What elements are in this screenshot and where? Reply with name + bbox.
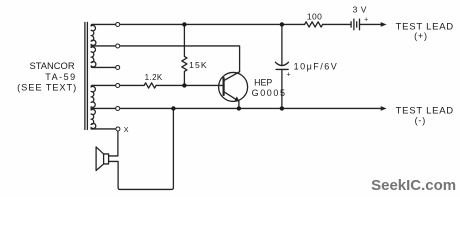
capacitor C1 curved plate xyxy=(275,62,288,65)
capacitor C1 straight plate xyxy=(276,68,288,70)
svg-text:3 V: 3 V xyxy=(353,4,367,14)
node: speaker return / lower rail xyxy=(171,106,175,110)
wire: X tap down to speaker top terminal xyxy=(109,131,118,156)
terminal tap 2 xyxy=(116,44,120,48)
wire: 1.2K to base xyxy=(156,84,223,86)
transistor Q1 collector lead xyxy=(224,72,240,81)
svg-text:(SEE TEXT): (SEE TEXT) xyxy=(17,83,77,93)
arrow to test lead (+) xyxy=(381,22,387,27)
svg-text:15K: 15K xyxy=(189,60,208,70)
svg-text:STANCOR: STANCOR xyxy=(29,60,74,71)
transistor Q1 circle xyxy=(219,72,248,101)
resistor R 15K vertical xyxy=(182,24,187,85)
svg-text:HEP: HEP xyxy=(254,78,272,88)
junction dots xyxy=(171,22,284,110)
resistor R 100 zigzag xyxy=(305,22,323,27)
transistor Q1 base bar xyxy=(223,78,225,95)
wire: base rail tap 4 to 12K xyxy=(93,84,145,86)
wire: top rail from winding to 100 resistor xyxy=(93,23,305,25)
wire: resistor to battery xyxy=(323,23,351,25)
resistor R 1.2K zigzag xyxy=(144,83,156,88)
wire: battery to test lead (+) arrow xyxy=(360,23,382,25)
wire: collector rail from winding tap 2 xyxy=(93,46,240,72)
svg-text:G0005: G0005 xyxy=(252,88,287,98)
battery B1 3V xyxy=(350,22,352,27)
node: 12K / 15K / base xyxy=(182,83,186,87)
arrow to test lead (-) xyxy=(381,106,387,111)
svg-text:TA-59: TA-59 xyxy=(45,72,76,82)
terminal tap 1 xyxy=(116,22,120,26)
svg-text:X: X xyxy=(124,125,129,134)
transformer T1 secondary winding (bottom) xyxy=(91,85,95,108)
svg-text:+: + xyxy=(364,16,368,23)
svg-text:(+): (+) xyxy=(414,31,428,41)
svg-text:+: + xyxy=(287,71,291,78)
transformer T1 primary winding (top) xyxy=(91,24,96,46)
node: capacitor / lower rail xyxy=(280,106,284,110)
wire: lower rail (test lead -) xyxy=(91,107,381,109)
capacitor C1 top lead xyxy=(281,24,283,65)
transistor Q1 emitter arrowhead xyxy=(235,96,240,101)
wire: speaker bottom terminal to bottom loop xyxy=(109,108,174,189)
svg-text:100: 100 xyxy=(307,12,322,22)
svg-text:1.2K: 1.2K xyxy=(145,73,163,82)
transistor Q1 emitter lead xyxy=(224,92,239,109)
svg-text:SeekIC.com: SeekIC.com xyxy=(371,177,456,194)
node: 15K / top rail xyxy=(182,22,186,26)
terminal tap 3 xyxy=(116,65,120,69)
node: capacitor / top rail xyxy=(280,22,284,26)
wire: bottom tap X xyxy=(91,128,118,130)
capacitor C1 bottom lead xyxy=(281,69,283,108)
speaker LS1 xyxy=(96,147,109,171)
wire: unused tap 3 xyxy=(93,66,118,68)
terminal tap 5 xyxy=(116,106,120,110)
svg-text:(-): (-) xyxy=(415,116,426,126)
terminal tap 4 xyxy=(116,83,120,87)
transformer T1 core xyxy=(85,22,88,129)
terminal tap X xyxy=(116,127,120,131)
open terminal circles on transformer taps xyxy=(116,22,120,131)
svg-text:10μF/6V: 10μF/6V xyxy=(294,62,339,72)
node: emitter / lower rail xyxy=(237,106,241,110)
